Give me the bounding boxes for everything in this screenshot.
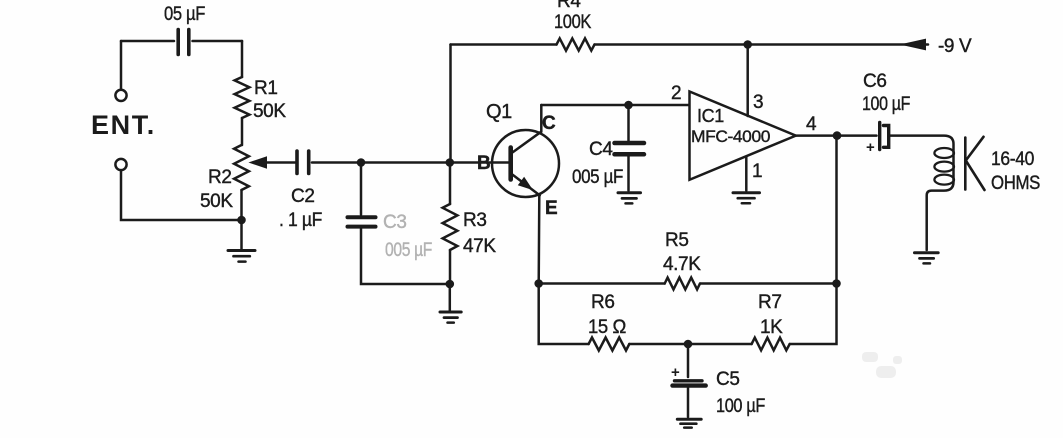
wire output down to R5 row xyxy=(835,136,838,284)
reference label R1 xyxy=(254,78,278,99)
node input terminal upper xyxy=(115,90,126,101)
resistor R1 50K xyxy=(235,77,250,118)
value label C2 xyxy=(279,210,322,231)
svg-text:R5: R5 xyxy=(665,230,689,251)
svg-text:R1: R1 xyxy=(254,78,278,99)
svg-text:C2: C2 xyxy=(291,186,315,207)
reference label C6 xyxy=(863,71,887,92)
svg-text:R7: R7 xyxy=(758,292,782,313)
polarity label C5 plus xyxy=(671,364,680,381)
svg-text:1K: 1K xyxy=(760,317,783,338)
svg-text:C5: C5 xyxy=(716,369,740,390)
wire R2 wiper arrow xyxy=(250,157,296,168)
transistor Q1 collector stroke xyxy=(511,132,541,154)
svg-text:47K: 47K xyxy=(463,236,496,257)
transistor Q1 base bar xyxy=(508,148,513,180)
ground under IC1 pin 1 xyxy=(733,193,760,204)
ground under R3 xyxy=(440,312,461,323)
node junction emitter/R5 xyxy=(534,279,543,288)
wire input top rail left of C1 xyxy=(121,40,174,43)
svg-text:50K: 50K xyxy=(200,191,233,212)
wire R6 to C5 junction xyxy=(629,343,751,346)
speaker coil loops xyxy=(934,148,954,185)
wire down to R7 row xyxy=(790,284,837,345)
pin number 1 xyxy=(752,161,762,182)
value label MFC-4000 xyxy=(691,127,770,146)
wire ground stem under R2 xyxy=(240,220,243,249)
svg-text:2: 2 xyxy=(671,83,681,104)
resistor R3 47K xyxy=(443,204,458,250)
node input terminal lower xyxy=(115,159,126,170)
wire Q1 collector up xyxy=(540,105,543,132)
wire R1 top lead xyxy=(241,41,244,77)
wire C4 bottom lead xyxy=(627,157,630,191)
value label C4 xyxy=(572,167,623,188)
wire IC1 pin 3 from rail xyxy=(746,45,749,117)
node junction R5 right xyxy=(832,279,841,288)
svg-text:15 Ω: 15 Ω xyxy=(588,317,626,338)
svg-text:E: E xyxy=(545,198,557,219)
reference label C5 xyxy=(716,369,740,390)
wire C3 top lead xyxy=(360,163,363,215)
reference label C4 xyxy=(589,139,613,160)
node junction R3 tap xyxy=(446,158,455,167)
transistor Q1 emitter stroke with arrow xyxy=(511,174,540,196)
capacitor C4 005 uF xyxy=(615,143,645,154)
value label R7 xyxy=(760,317,783,338)
node junction C3 tap xyxy=(357,158,366,167)
svg-text:05 µF: 05 µF xyxy=(164,4,205,25)
svg-text:1: 1 xyxy=(752,161,762,182)
node junction R2-bottom / input ground xyxy=(237,216,246,225)
pin number 2 xyxy=(671,83,681,104)
reference label R3 xyxy=(463,210,487,231)
node junction pin3 rail xyxy=(743,40,752,49)
ground under C4 xyxy=(618,193,641,204)
wire C1 to R1 top xyxy=(193,40,243,43)
capacitor C1 (05 uF) xyxy=(178,30,189,55)
svg-text:OHMS: OHMS xyxy=(991,173,1040,194)
svg-text:+: + xyxy=(671,364,680,381)
wire emitter node to R5 row xyxy=(539,282,665,285)
value label C3 (faded) xyxy=(385,240,432,261)
reference label C3 (faded) xyxy=(383,212,407,233)
svg-text:B: B xyxy=(477,153,490,174)
supply label -9V xyxy=(938,36,972,57)
svg-text:C4: C4 xyxy=(589,139,613,160)
ground under C5 xyxy=(677,419,701,427)
wire C3 bottom lead xyxy=(361,229,450,285)
wire IC1 pin 1 to ground xyxy=(745,157,748,191)
value label C6 xyxy=(862,94,910,115)
svg-text:ENT.: ENT. xyxy=(91,110,156,140)
wire R3 bottom lead xyxy=(449,250,452,284)
polarity label C6 plus xyxy=(866,139,875,156)
svg-text:100 µF: 100 µF xyxy=(862,94,910,115)
node junction C3/R3 ground xyxy=(446,280,455,289)
wire R3 top lead xyxy=(449,163,452,205)
value label R6 xyxy=(588,317,626,338)
resistor R5 4.7K xyxy=(665,278,700,290)
capacitor C3 005 uF xyxy=(348,217,376,226)
svg-text:MFC-4000: MFC-4000 xyxy=(691,127,770,146)
value label R5 xyxy=(663,254,701,275)
pin label B xyxy=(477,153,490,174)
svg-text:-9 V: -9 V xyxy=(938,36,972,57)
svg-text:005 µF: 005 µF xyxy=(572,167,623,188)
resistor R4 100K xyxy=(557,38,595,50)
svg-text:4: 4 xyxy=(806,114,817,135)
svg-text:C6: C6 xyxy=(863,71,887,92)
pin number 3 xyxy=(753,92,763,113)
node label ENT input xyxy=(91,110,156,140)
node junction C4 tap xyxy=(624,101,633,110)
svg-text:R3: R3 xyxy=(463,210,487,231)
wire C6 to speaker xyxy=(890,136,954,250)
value label speaker 16-40 xyxy=(991,149,1034,170)
wire C2 to Q1 base xyxy=(312,161,510,164)
svg-text:16-40: 16-40 xyxy=(991,149,1034,170)
resistor R6 15 ohm xyxy=(589,338,630,351)
resistor R2 50K potentiometer xyxy=(234,145,249,190)
wire rail drop to base junction xyxy=(449,45,452,163)
wire R2 bottom lead xyxy=(240,190,243,220)
svg-text:100K: 100K xyxy=(554,12,592,33)
svg-text:50K: 50K xyxy=(253,101,286,122)
reference label IC1 xyxy=(697,106,724,126)
svg-text:C: C xyxy=(542,113,556,134)
op-amp IC1 MFC-4000 xyxy=(690,92,796,180)
wire input bottom terminal to ground rail xyxy=(121,170,242,220)
capacitor C6 100 uF plates xyxy=(880,123,889,150)
svg-text:3: 3 xyxy=(753,92,763,113)
capacitor C2 .1 uF xyxy=(297,151,309,174)
value label R3 xyxy=(463,236,496,257)
speaker cone xyxy=(965,137,984,190)
svg-text:R6: R6 xyxy=(591,292,615,313)
reference label R2 xyxy=(208,167,232,188)
wire C5 top lead xyxy=(687,344,690,377)
wire collector to IC pin 2 xyxy=(541,104,689,107)
svg-text:R4: R4 xyxy=(557,0,581,12)
svg-text:Q1: Q1 xyxy=(486,101,512,123)
value label speaker OHMS xyxy=(991,173,1040,194)
svg-text:IC1: IC1 xyxy=(697,106,724,126)
svg-text:. 1 µF: . 1 µF xyxy=(279,210,322,231)
svg-text:+: + xyxy=(866,139,875,156)
transistor Q1 body xyxy=(492,130,559,197)
wire emitter down to R6 row xyxy=(539,284,589,345)
reference label C2 xyxy=(291,186,315,207)
wire input top terminal drop xyxy=(120,41,123,90)
value label R2 xyxy=(200,191,233,212)
wire Q1 emitter down xyxy=(537,195,540,283)
node junction output xyxy=(833,131,842,140)
resistor R7 1K xyxy=(752,338,790,351)
value label C1 xyxy=(164,4,205,25)
value label R4 xyxy=(554,12,592,33)
ground under R2 xyxy=(228,251,255,262)
wire R4 to -9V arrow xyxy=(595,43,929,46)
wire C5 bottom lead xyxy=(687,388,690,417)
reference label R4 (clipped at top) xyxy=(557,0,581,12)
value label R1 xyxy=(253,101,286,122)
node junction C5 tap xyxy=(684,340,693,349)
wire ground stem under R3 xyxy=(449,284,452,311)
value label C5 xyxy=(716,396,765,417)
reference label R6 xyxy=(591,292,615,313)
svg-text:4.7K: 4.7K xyxy=(663,254,701,275)
reference label R5 xyxy=(665,230,689,251)
wire C4 top lead xyxy=(627,105,630,141)
wire R5 to right junction xyxy=(700,282,837,285)
ground under speaker xyxy=(915,253,939,264)
svg-text:100 µF: 100 µF xyxy=(716,396,765,417)
wire IC1 pin 4 output xyxy=(796,134,877,137)
capacitor C5 100 uF xyxy=(673,381,706,386)
pin label E xyxy=(545,198,557,219)
wire R1 to R2 xyxy=(241,118,244,145)
pin number 4 xyxy=(806,114,817,135)
reference label R7 xyxy=(758,292,782,313)
supply arrow -9V xyxy=(902,39,926,49)
svg-text:R2: R2 xyxy=(208,167,232,188)
reference label Q1 xyxy=(486,101,512,123)
top supply rail with R4 xyxy=(451,43,557,46)
svg-text:C3: C3 xyxy=(383,212,407,233)
pin label C xyxy=(542,113,556,134)
svg-text:005 µF: 005 µF xyxy=(385,240,432,261)
